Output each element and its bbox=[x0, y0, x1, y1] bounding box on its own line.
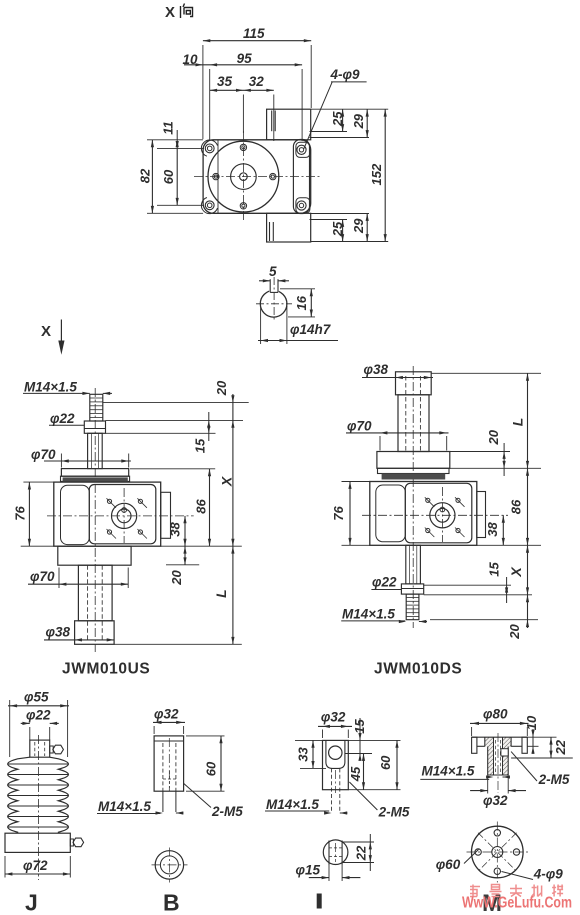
center boss circle bbox=[231, 164, 257, 190]
US lifting screw bbox=[88, 433, 103, 468]
svg-text:95: 95 bbox=[237, 51, 253, 66]
svg-text:M14×1.5: M14×1.5 bbox=[342, 607, 395, 622]
motor mount hole bottom bbox=[240, 203, 246, 209]
US ext lines right bbox=[103, 402, 249, 404]
svg-text:L: L bbox=[510, 418, 526, 427]
svg-text:φ32: φ32 bbox=[154, 707, 179, 722]
svg-text:WwW.GeLufu.Com: WwW.GeLufu.Com bbox=[462, 895, 572, 912]
svg-text:X: X bbox=[219, 475, 235, 487]
svg-text:φ22: φ22 bbox=[372, 575, 397, 590]
DS worm wheel dark band bbox=[382, 474, 446, 480]
watermark chinese characters bbox=[470, 885, 563, 897]
J bellows bbox=[8, 757, 30, 833]
svg-text:φ32: φ32 bbox=[483, 793, 508, 808]
US key circle bbox=[122, 508, 127, 513]
DS body chamber bbox=[376, 485, 406, 542]
M bolt holes bbox=[494, 830, 500, 836]
DS flange ring bbox=[378, 468, 450, 473]
M center hole bbox=[492, 847, 503, 858]
DS key circle bbox=[440, 507, 445, 512]
centerline horizontal top view bbox=[194, 176, 322, 178]
US bottom cap bbox=[75, 621, 115, 645]
svg-text:M14×1.5: M14×1.5 bbox=[266, 797, 319, 812]
svg-text:φ15: φ15 bbox=[296, 863, 321, 878]
US stop collar bbox=[84, 421, 105, 433]
svg-text:φ22: φ22 bbox=[50, 411, 75, 426]
DS side tab bbox=[477, 492, 486, 538]
svg-text:5: 5 bbox=[269, 264, 277, 279]
svg-text:29: 29 bbox=[351, 218, 366, 234]
svg-text:4-φ9: 4-φ9 bbox=[330, 67, 361, 82]
corner bolt bottom-left bbox=[205, 201, 214, 210]
svg-text:15: 15 bbox=[192, 438, 207, 453]
J grease nipple top bbox=[50, 746, 54, 753]
svg-text:82: 82 bbox=[137, 168, 152, 183]
svg-text:16: 16 bbox=[294, 295, 309, 310]
svg-text:4-φ9: 4-φ9 bbox=[533, 867, 564, 882]
svg-text:29: 29 bbox=[351, 113, 366, 129]
US top flange plate bbox=[61, 469, 128, 477]
US side tab bbox=[161, 492, 171, 538]
svg-text:M14×1.5: M14×1.5 bbox=[24, 380, 77, 395]
J top stub bbox=[30, 740, 50, 757]
DS hidden screw in tube bbox=[405, 376, 407, 452]
svg-text:φ70: φ70 bbox=[347, 419, 372, 434]
svg-text:φ70: φ70 bbox=[31, 447, 56, 462]
svg-text:15: 15 bbox=[486, 562, 501, 577]
J bottom collar bbox=[5, 833, 70, 852]
svg-text:20: 20 bbox=[169, 570, 184, 586]
flange tab bottom bbox=[267, 213, 311, 242]
svg-text:38: 38 bbox=[167, 522, 182, 537]
DS gearbox body bbox=[370, 482, 477, 546]
centerline vertical top view bbox=[242, 131, 244, 221]
US flange bolt holes bbox=[107, 499, 111, 503]
svg-text:86: 86 bbox=[508, 499, 523, 514]
svg-text:60: 60 bbox=[378, 755, 393, 770]
M bottom circle view bbox=[472, 826, 524, 878]
US flange ring bbox=[61, 476, 130, 481]
DS flange vertical centerline bbox=[441, 487, 443, 542]
svg-text:X: X bbox=[41, 323, 51, 340]
ext lines right bottom bbox=[311, 241, 389, 243]
pad bolt hole bottom bbox=[296, 198, 310, 213]
DS top boss bbox=[377, 452, 450, 469]
B thread stub below bbox=[162, 791, 164, 812]
B M5 hole hidden bbox=[163, 778, 176, 780]
M flange plate bbox=[472, 736, 528, 738]
ext lines right top bbox=[311, 108, 389, 110]
DS ext lines right bbox=[431, 372, 541, 374]
bolt pad strip right bbox=[293, 140, 309, 214]
motor mount hole right bbox=[270, 173, 276, 179]
corner bolt top-left bbox=[205, 144, 214, 153]
I hidden thread bbox=[331, 768, 333, 813]
DS motor flange square bbox=[405, 483, 472, 543]
svg-text:φ38: φ38 bbox=[364, 362, 389, 377]
DS top cap bbox=[396, 372, 432, 395]
B hidden thread bbox=[162, 743, 164, 791]
svg-text:11: 11 bbox=[160, 121, 175, 135]
svg-text:φ80: φ80 bbox=[483, 707, 508, 722]
US body chamber bbox=[61, 485, 90, 544]
svg-text:38: 38 bbox=[485, 522, 500, 537]
DS worm centerline bbox=[362, 514, 508, 516]
keyway slot bbox=[269, 287, 279, 293]
B cylinder bbox=[154, 736, 184, 791]
M flange hatch left bbox=[485, 737, 494, 775]
M circle centerlines bbox=[467, 851, 529, 853]
pad bolt hole top bbox=[296, 142, 310, 157]
svg-text:JWM010DS: JWM010DS bbox=[374, 661, 462, 678]
svg-text:20: 20 bbox=[507, 624, 522, 640]
svg-text:115: 115 bbox=[243, 26, 265, 41]
US worm wheel dark band bbox=[63, 477, 128, 481]
svg-text:33: 33 bbox=[295, 747, 310, 762]
DS flange bolt holes bbox=[426, 498, 430, 502]
svg-text:60: 60 bbox=[161, 169, 176, 184]
J grease nipple bottom bbox=[70, 839, 73, 846]
I block bbox=[323, 740, 349, 789]
worm wheel large circle bbox=[208, 141, 279, 212]
center hole bbox=[240, 173, 248, 181]
motor mount hole top bbox=[240, 144, 246, 150]
US protective tube bbox=[78, 565, 112, 621]
tab top slot lines bbox=[271, 111, 273, 132]
M thread hole bbox=[493, 737, 495, 775]
US gearbox body bbox=[54, 482, 161, 546]
US flange vertical centerline bbox=[123, 488, 125, 543]
I clevis slot bbox=[326, 740, 345, 768]
US screw centerline bbox=[94, 388, 96, 652]
svg-text:X: X bbox=[508, 566, 524, 578]
leader 4-phi9 bbox=[304, 82, 332, 149]
svg-text:86: 86 bbox=[193, 499, 208, 514]
svg-text:X: X bbox=[165, 4, 175, 21]
M center boss bbox=[484, 737, 486, 746]
svg-text:20: 20 bbox=[486, 429, 501, 445]
svg-text:152: 152 bbox=[369, 163, 384, 185]
US bottom boss bbox=[58, 546, 131, 565]
svg-text:φ72: φ72 bbox=[23, 858, 48, 873]
svg-text:JWM010US: JWM010US bbox=[62, 661, 150, 678]
DS stop collar bbox=[401, 584, 423, 594]
flange tab top bbox=[267, 109, 311, 140]
svg-text:2-M5: 2-M5 bbox=[538, 772, 570, 787]
M M5 side hole bbox=[501, 749, 508, 756]
svg-text:M14×1.5: M14×1.5 bbox=[98, 799, 151, 814]
top view inner chamber line bbox=[217, 140, 219, 214]
svg-text:22: 22 bbox=[353, 845, 368, 861]
DS lifting screw bbox=[406, 545, 421, 584]
svg-text:35: 35 bbox=[217, 74, 233, 89]
J centerline bbox=[38, 735, 40, 880]
svg-text:φ22: φ22 bbox=[26, 708, 51, 723]
svg-text:10: 10 bbox=[524, 715, 539, 730]
DS protective tube bbox=[398, 395, 429, 452]
DS threaded stud M14 bbox=[406, 594, 419, 620]
svg-text:φ14h7: φ14h7 bbox=[290, 322, 332, 337]
svg-text:32: 32 bbox=[249, 74, 265, 89]
svg-text:B: B bbox=[163, 890, 180, 915]
US worm centerline bbox=[47, 515, 194, 517]
svg-text:M14×1.5: M14×1.5 bbox=[422, 764, 475, 779]
svg-text:φ55: φ55 bbox=[24, 690, 49, 705]
svg-text:φ32: φ32 bbox=[321, 710, 346, 725]
DS worm shaft circle bbox=[430, 503, 455, 528]
detail centerlines bbox=[256, 303, 292, 305]
M flange hatch right bbox=[503, 737, 512, 775]
motor mount hole left bbox=[213, 173, 219, 179]
US motor flange square bbox=[89, 485, 156, 544]
I clevis hole bbox=[329, 746, 342, 759]
DS screw centerline bbox=[412, 366, 414, 628]
I letter bbox=[317, 894, 322, 909]
US worm shaft circle bbox=[112, 503, 137, 528]
svg-text:45: 45 bbox=[348, 766, 363, 782]
I bottom circle view bbox=[323, 840, 348, 865]
US hidden screw in tube bbox=[87, 565, 89, 640]
US threaded stud M14 bbox=[90, 394, 103, 421]
svg-text:J: J bbox=[25, 890, 38, 915]
svg-text:L: L bbox=[213, 589, 229, 598]
svg-text:22: 22 bbox=[553, 739, 568, 755]
svg-text:2-M5: 2-M5 bbox=[211, 804, 243, 819]
tab bottom slot lines bbox=[269, 222, 271, 241]
svg-text:76: 76 bbox=[331, 506, 346, 521]
svg-text:20: 20 bbox=[214, 380, 229, 396]
svg-text:φ38: φ38 bbox=[46, 625, 71, 640]
svg-text:76: 76 bbox=[12, 506, 27, 521]
svg-text:2-M5: 2-M5 bbox=[378, 805, 410, 820]
B bottom circle view bbox=[155, 851, 183, 879]
top view main housing square bbox=[203, 140, 311, 214]
svg-text:60: 60 bbox=[203, 761, 218, 776]
worm shaft end circle bbox=[260, 291, 287, 318]
svg-text:φ60: φ60 bbox=[436, 857, 461, 872]
svg-text:φ70: φ70 bbox=[30, 569, 55, 584]
